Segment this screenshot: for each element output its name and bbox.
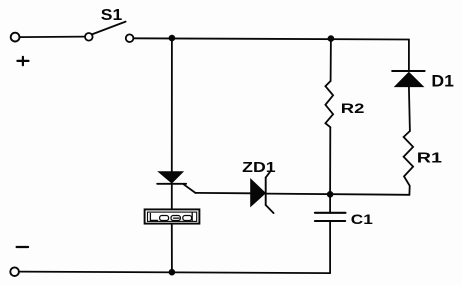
node A (junction top of SCR branch): [169, 35, 176, 42]
wire: bottom rail up to C1: [329, 221, 331, 273]
wire: bottom rail: [19, 272, 330, 274]
- polarity mark: [17, 246, 29, 248]
node D (junction R2/ZD1/C1/R1): [327, 191, 334, 198]
svg-text:R2: R2: [341, 101, 365, 116]
node B (junction top of R2 branch): [328, 35, 335, 42]
wire: D1 to R1: [409, 87, 410, 131]
wire: + terminal to switch pole: [20, 36, 85, 39]
+ polarity mark: [17, 57, 28, 65]
wire: C1 top lead: [329, 194, 331, 212]
terminal - (bottom left input terminal): [10, 267, 19, 276]
wire: right rail top: [408, 40, 410, 71]
wire: top rail from switch to right corner: [134, 38, 409, 39]
svg-text:C1: C1: [351, 211, 373, 227]
switch S1 throw contact: [126, 34, 134, 42]
resistor R1: [404, 131, 414, 195]
svg-text:ZD1: ZD1: [242, 160, 275, 176]
svg-text:R1: R1: [417, 150, 442, 166]
terminal + (top left input terminal): [11, 33, 20, 42]
wire: load to bottom rail: [171, 224, 173, 272]
diode D1: [392, 71, 424, 87]
load box: [145, 209, 200, 223]
svg-text:S1: S1: [101, 7, 123, 24]
wire: SCR anode drop: [171, 38, 173, 172]
capacitor C1: [315, 213, 346, 221]
svg-text:D1: D1: [431, 72, 454, 91]
node C (junction bottom of SCR branch): [169, 269, 176, 276]
zener diode ZD1: [195, 171, 409, 213]
switch S1 pole contact: [85, 33, 93, 41]
switch S1 arm: [92, 22, 126, 35]
SCR Q1 (crowbar thyristor): [157, 172, 195, 193]
wire: SCR cathode to load: [171, 184, 173, 209]
load text "Load": [150, 213, 192, 221]
resistor R2: [325, 39, 333, 195]
